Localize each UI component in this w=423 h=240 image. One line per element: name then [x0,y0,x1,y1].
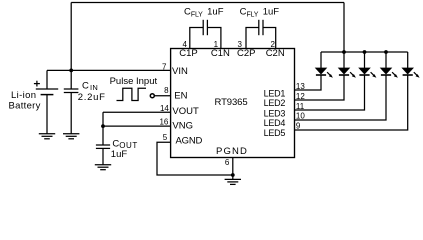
svg-text:2: 2 [270,40,275,49]
LED D1 [316,52,333,78]
node VOUT/VNG junction dot [101,124,105,128]
ground (battery) [39,134,55,139]
capacitor C_FLY 1 [203,20,207,35]
svg-text:CIN: CIN [82,81,98,93]
node LED rail dot at LED3 [363,50,367,54]
wire feed from top rail to LED rail [343,3,345,53]
LED D3 [359,52,376,78]
capacitor C_FLY 2 [259,20,263,35]
node LED rail dot at LED4 [384,50,388,54]
wire LED5 cathode to pin 9 [295,75,408,130]
wire C1N pin 1 [207,28,221,49]
wire C1P pin 4 [190,28,203,49]
svg-text:RT9365: RT9365 [214,97,247,108]
svg-text:C2P: C2P [237,48,255,59]
svg-text:14: 14 [160,104,169,113]
svg-text:C1P: C1P [179,48,197,59]
svg-text:LED2: LED2 [264,98,286,108]
wire top rail from battery node to LED rail [71,2,344,4]
wire LED2 cathode to pin 12 [295,75,345,100]
wire LED4 cathode to pin 10 [295,75,387,120]
svg-text:10: 10 [296,112,305,121]
svg-text:3: 3 [237,40,242,49]
svg-text:AGND: AGND [176,136,203,147]
svg-text:12: 12 [296,92,305,101]
LED D5 [402,52,419,78]
svg-text:LED1: LED1 [264,88,286,98]
wire C2P pin 3 [246,28,259,49]
svg-text:5: 5 [163,133,168,142]
pulse input waveform symbol [117,88,147,100]
svg-text:1: 1 [214,40,219,49]
wire VOUT pin 14 [103,111,171,113]
svg-text:Pulse Input: Pulse Input [110,76,158,87]
wire LED anode rail [321,51,408,53]
svg-text:C2N: C2N [266,48,285,59]
svg-text:PGND: PGND [216,146,248,157]
wire EN to pin 8 [155,95,171,97]
svg-text:1uF: 1uF [111,149,128,160]
svg-text:CFLY 1uF: CFLY 1uF [240,7,280,19]
svg-text:EN: EN [174,91,187,102]
op-amp U1 RT9365 IC body [171,49,295,158]
svg-text:LED3: LED3 [264,108,286,118]
svg-text:6: 6 [225,158,230,167]
svg-text:Battery: Battery [9,100,41,111]
ground (C_IN) [63,134,79,139]
wire PGND pin 6 down [232,158,234,180]
svg-text:VOUT: VOUT [172,106,199,117]
svg-text:13: 13 [296,82,305,91]
svg-text:LED5: LED5 [264,128,286,138]
wire VNG pin 16 [103,125,171,127]
svg-text:4: 4 [182,40,187,49]
wire VIN net (battery to pin 7) [47,69,171,71]
wire left vertical from top rail to VIN node [70,3,72,71]
svg-text:16: 16 [159,117,168,126]
svg-text:C1N: C1N [211,48,230,59]
ground (C_OUT) [95,165,111,170]
svg-text:CFLY 1uF: CFLY 1uF [184,7,224,19]
svg-text:2.2uF: 2.2uF [78,92,106,103]
capacitor C_OUT 1uF [96,145,110,165]
wire C2N pin 2 [263,28,276,49]
LED D4 [381,52,398,78]
svg-text:7: 7 [162,62,167,71]
node AGND/PGND junction dot [231,173,235,177]
wire VOUT down to C_OUT [102,112,104,145]
svg-text:8: 8 [164,86,169,95]
battery plus sign [34,81,40,87]
wire LED3 cathode to pin 11 [295,75,365,110]
svg-text:9: 9 [296,121,301,130]
node VIN junction dot [69,69,73,73]
EN input bubble [150,94,154,98]
wire LED1 cathode to pin 13 [295,75,322,90]
LED D2 [339,52,356,78]
svg-text:LED4: LED4 [264,118,286,128]
svg-text:VNG: VNG [172,121,193,132]
wire AGND pin 5 route [157,142,233,175]
battery BT1 Li-ion [36,70,58,133]
svg-text:VIN: VIN [172,66,188,77]
svg-text:11: 11 [296,102,305,111]
node LED rail dot at LED2 [342,50,346,54]
ground (PGND) [225,179,241,184]
capacitor C_IN 2.2uF [64,70,79,133]
